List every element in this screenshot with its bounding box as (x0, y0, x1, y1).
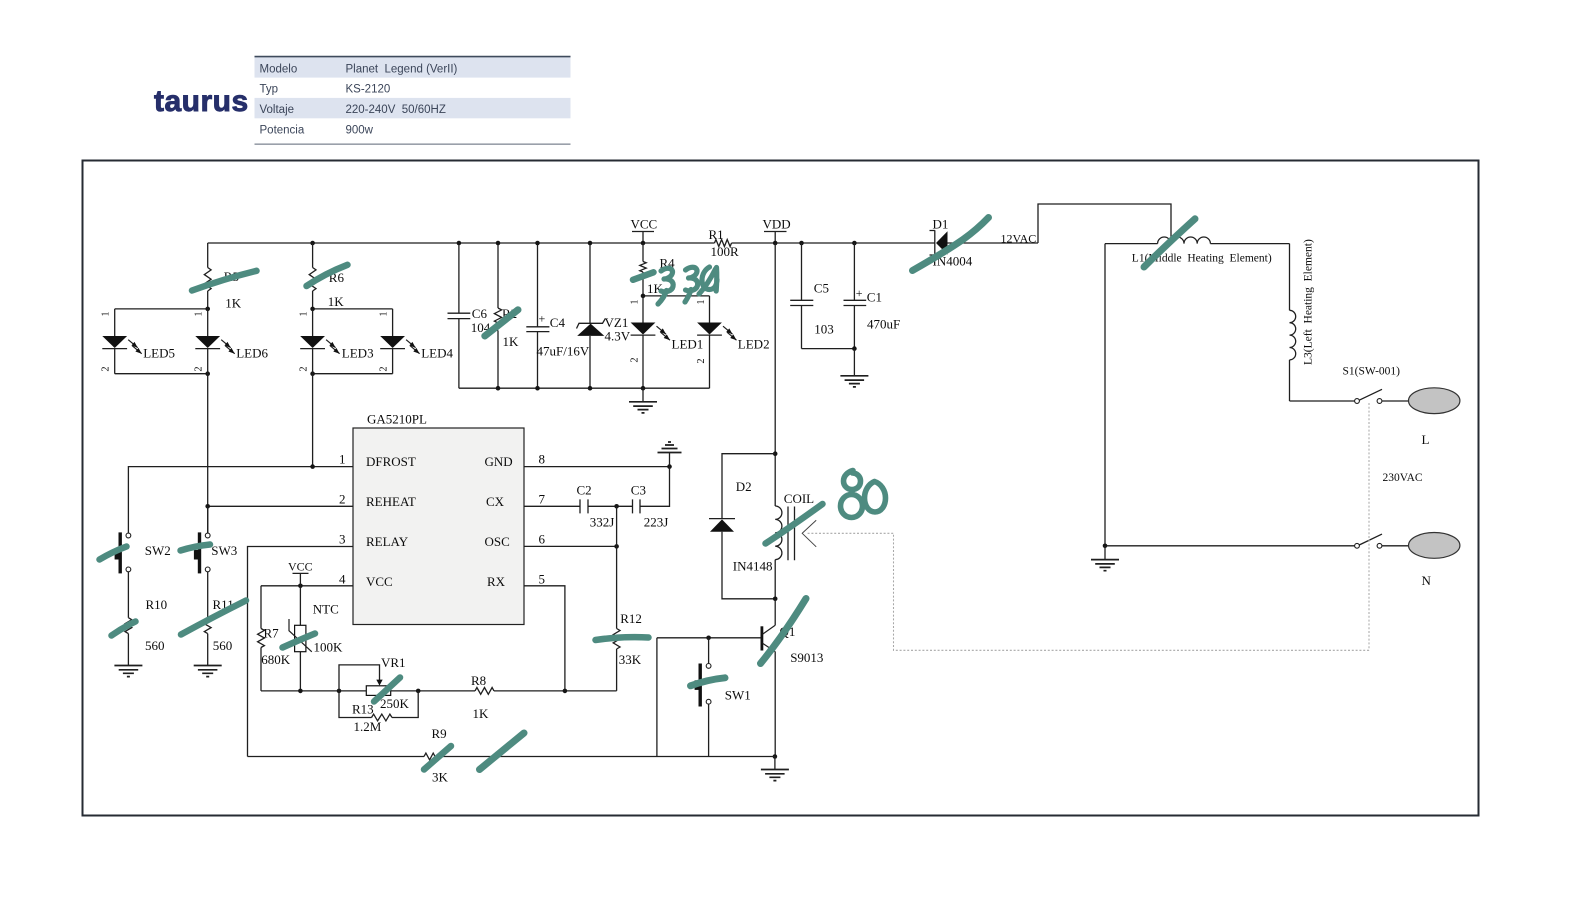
svg-text:LED2: LED2 (738, 337, 770, 352)
svg-text:100K: 100K (314, 639, 344, 654)
svg-text:LED1: LED1 (672, 337, 704, 352)
svg-text:Modelo: Modelo (260, 63, 298, 75)
resistor R4 1K (640, 243, 675, 296)
resistor R13 1.2M (339, 691, 418, 734)
svg-text:1: 1 (194, 312, 205, 317)
svg-text:VDD: VDD (763, 217, 791, 232)
wire: LED6 column down to SW3 (207, 374, 209, 534)
spec table (255, 57, 571, 145)
svg-text:2: 2 (339, 491, 346, 506)
terminal ellipse N (1409, 533, 1460, 559)
ground under Q1 emitter (773, 754, 778, 759)
ground under R10 (114, 666, 142, 677)
svg-text:1: 1 (298, 312, 309, 317)
svg-text:4: 4 (339, 571, 346, 586)
marker stroke over relay coil (766, 504, 823, 544)
svg-text:+: + (539, 312, 546, 326)
svg-text:900w: 900w (346, 124, 374, 136)
relay COIL (775, 491, 814, 599)
svg-text:C3: C3 (631, 482, 646, 497)
capacitor C6 (448, 243, 491, 388)
resistor R10 560 (125, 572, 167, 666)
LED5 (102, 309, 175, 374)
svg-text:KS-2120: KS-2120 (346, 84, 391, 96)
svg-text:560: 560 (213, 638, 233, 653)
diode D1 IN4004 (930, 216, 1039, 268)
wire: pin7 CX (524, 467, 670, 507)
marker stroke over R2 (485, 310, 518, 336)
svg-text:SW1: SW1 (725, 687, 751, 702)
svg-text:1.2M: 1.2M (354, 719, 382, 734)
resistor R2 1K (494, 243, 519, 388)
marker stroke over R10 (112, 622, 136, 636)
svg-text:2: 2 (696, 359, 707, 364)
svg-text:2: 2 (378, 367, 389, 372)
bottom rail of C6/R2/C4/VZ1/LED group (459, 387, 710, 389)
VDD power symbol (763, 217, 791, 244)
svg-text:C1: C1 (867, 290, 882, 305)
svg-text:6: 6 (539, 531, 546, 546)
wire: pin2 REHEAT to LED6 column (208, 505, 353, 507)
thermistor NTC 100K (289, 586, 343, 691)
svg-text:332J: 332J (590, 514, 615, 529)
svg-text:1K: 1K (473, 706, 490, 721)
marker stroke over Q1 (761, 599, 807, 664)
svg-text:1: 1 (378, 312, 389, 317)
wire: C5-C1 bottom (802, 348, 855, 350)
wire: pin8 GND net (524, 466, 670, 468)
svg-text:taurus: taurus (154, 85, 249, 118)
svg-text:47uF/16V: 47uF/16V (537, 344, 590, 359)
svg-text:5: 5 (539, 571, 546, 586)
svg-text:CX: CX (486, 494, 505, 509)
LED6 (195, 309, 268, 374)
marker stroke over R5 (192, 271, 257, 291)
wire: base node down to bottom rail (656, 638, 658, 757)
pushbutton SW2 (115, 532, 171, 573)
svg-text:4.3V: 4.3V (605, 329, 631, 344)
svg-text:N: N (1422, 573, 1432, 588)
svg-text:LED6: LED6 (236, 346, 268, 361)
resistor R12 33K (613, 506, 642, 691)
marker stroke over L1 (1144, 219, 1195, 267)
marker stroke over R6 (307, 265, 348, 286)
wire: pin4 VCC line (261, 585, 353, 587)
LED2 (697, 296, 769, 388)
wire: LED5/LED6 rails (115, 309, 208, 374)
svg-text:R7: R7 (264, 625, 280, 640)
inductor L3 (Left Heating Element) (1290, 239, 1315, 401)
ground under C1 (853, 349, 855, 376)
svg-text:Planet Legend (VerII): Planet Legend (VerII) (346, 63, 458, 75)
marker stroke over R9 (424, 746, 451, 770)
svg-text:1: 1 (339, 451, 346, 466)
marker stroke over R11 (181, 601, 246, 635)
transistor Q1 S9013 (762, 599, 824, 757)
wire: LED3/LED4 rails (313, 309, 393, 374)
resistor R11 560 (204, 572, 233, 666)
dashed mechanical linkage (806, 403, 1369, 650)
pushbutton SW1 (695, 638, 751, 757)
zener diode VZ1 (577, 243, 631, 388)
capacitor C1 470uF (844, 243, 901, 349)
svg-text:D1: D1 (933, 216, 949, 231)
schematic border frame (83, 161, 1479, 816)
svg-text:3K: 3K (432, 769, 449, 784)
svg-text:GND: GND (485, 454, 513, 469)
svg-text:VCC: VCC (288, 559, 313, 573)
svg-text:C2: C2 (577, 482, 592, 497)
wire: right loop vertical down to ground (1104, 244, 1106, 546)
svg-text:C4: C4 (550, 315, 566, 330)
switch S1 upper (L) (1290, 366, 1409, 404)
marker stroke over SW3 (181, 545, 211, 551)
svg-text:LED4: LED4 (421, 346, 453, 361)
marker handwriting 80 (841, 471, 863, 518)
svg-text:Typ: Typ (260, 84, 279, 96)
svg-text:VCC: VCC (366, 574, 393, 589)
svg-text:1K: 1K (225, 296, 242, 311)
svg-text:LED5: LED5 (143, 346, 175, 361)
marker stroke over SW1 (691, 678, 726, 686)
LED1 (631, 296, 704, 388)
svg-text:12VAC: 12VAC (1001, 232, 1037, 246)
svg-text:220-240V 50/60HZ: 220-240V 50/60HZ (346, 104, 446, 116)
svg-text:560: 560 (145, 638, 165, 653)
resistor R7 680K (258, 586, 291, 691)
wire: 12VAC loop to heating elements (1038, 204, 1171, 244)
svg-text:1: 1 (101, 312, 112, 317)
svg-text:L3(Left Heating Element): L3(Left Heating Element) (1303, 239, 1315, 365)
svg-text:D2: D2 (736, 479, 752, 494)
svg-text:R13: R13 (352, 701, 374, 716)
wire: bottom rail (248, 756, 775, 758)
svg-text:470uF: 470uF (867, 317, 900, 332)
svg-text:R9: R9 (432, 726, 447, 741)
svg-text:SW2: SW2 (145, 543, 171, 558)
svg-text:RELAY: RELAY (366, 534, 409, 549)
svg-text:1K: 1K (503, 334, 520, 349)
svg-text:VCC: VCC (631, 217, 658, 232)
svg-text:R12: R12 (620, 611, 642, 626)
ground at mains neutral (1104, 546, 1106, 560)
svg-text:SW3: SW3 (211, 543, 237, 558)
svg-text:1K: 1K (328, 294, 345, 309)
svg-text:R1: R1 (709, 227, 724, 242)
svg-text:103: 103 (814, 322, 834, 337)
svg-text:2: 2 (194, 367, 205, 372)
resistor R5 1K (204, 243, 241, 311)
wire: pin6 OSC (524, 545, 617, 547)
resistor R8 1K (471, 673, 494, 721)
capacitor C4 (526, 243, 590, 388)
svg-text:Potencia: Potencia (260, 124, 305, 136)
svg-text:250K: 250K (380, 696, 410, 711)
svg-text:GA5210PL: GA5210PL (367, 412, 427, 427)
svg-text:IN4148: IN4148 (733, 559, 773, 574)
potentiometer VR1 250K (339, 655, 410, 711)
marker stroke over SW2 (100, 547, 127, 560)
marker stroke over D1 (913, 218, 989, 271)
svg-text:VR1: VR1 (381, 655, 406, 670)
svg-text:OSC: OSC (485, 534, 510, 549)
svg-text:2: 2 (298, 367, 309, 372)
resistor R1 (709, 227, 740, 259)
wire: LED3 column down to pin1 line (312, 374, 314, 467)
marker stroke over R12 (596, 637, 649, 640)
wire: LED1/LED2 top rail (643, 295, 710, 297)
svg-text:R8: R8 (471, 673, 486, 688)
svg-text:680K: 680K (261, 652, 291, 667)
svg-text:DFROST: DFROST (366, 454, 416, 469)
svg-text:S9013: S9013 (790, 650, 823, 665)
svg-text:R10: R10 (146, 597, 168, 612)
svg-text:C5: C5 (814, 281, 829, 296)
wire: pin5 RX loop (524, 586, 565, 691)
wire: VDD vertical to relay coil (774, 243, 776, 506)
svg-text:33K: 33K (619, 652, 642, 667)
svg-text:L: L (1422, 432, 1430, 447)
marker stroke over VR1 (374, 678, 400, 702)
marker stroke over NTC (283, 634, 316, 648)
resistor R9 3K (424, 726, 449, 784)
ground under LED1/LED2 (641, 386, 646, 391)
svg-text:100R: 100R (711, 244, 740, 259)
marker handwriting 330 (658, 268, 673, 304)
terminal ellipse L (1409, 388, 1460, 414)
resistor R6 1K (309, 243, 344, 309)
svg-text:223J: 223J (644, 514, 669, 529)
linkage arrowhead at relay (802, 520, 816, 547)
capacitor C2 332J (577, 482, 615, 529)
wire: analog bottom line (261, 690, 617, 692)
LED3 (300, 309, 373, 374)
VCC power symbol (631, 217, 658, 244)
IC U1 GA5210PL (353, 412, 524, 625)
wire: main VCC bus (208, 242, 935, 244)
svg-text:NTC: NTC (313, 602, 339, 617)
svg-text:C6: C6 (472, 306, 488, 321)
LED4 (380, 309, 453, 374)
inductor L1 (Middle Heating Element) (1105, 237, 1290, 265)
svg-text:LED3: LED3 (342, 346, 374, 361)
capacitor C3 223J (631, 482, 669, 529)
pushbutton SW3 (207, 506, 209, 533)
marker dash near R4 (633, 272, 654, 280)
svg-text:8: 8 (539, 451, 546, 466)
wire: pin3 RELAY loop down (248, 547, 354, 757)
wire: base line (657, 637, 761, 639)
svg-text:COIL: COIL (784, 491, 814, 506)
VCC mini power symbol (288, 559, 313, 586)
inverted ground on GND net (669, 453, 671, 467)
wire: pin1 DFROST to SW2 (128, 467, 353, 533)
svg-text:+: + (856, 286, 863, 300)
svg-text:2: 2 (629, 358, 640, 363)
svg-text:1: 1 (696, 300, 707, 305)
svg-text:REHEAT: REHEAT (366, 494, 416, 509)
capacitor C5 103 (790, 243, 834, 349)
svg-text:230VAC: 230VAC (1383, 472, 1423, 484)
svg-text:Voltaje: Voltaje (260, 104, 295, 116)
svg-text:S1(SW-001): S1(SW-001) (1343, 366, 1401, 378)
diode D2 IN4148 (709, 454, 775, 599)
svg-text:2: 2 (101, 367, 112, 372)
svg-text:1: 1 (629, 300, 640, 305)
svg-text:RX: RX (487, 574, 506, 589)
bus junction dots (310, 241, 315, 246)
svg-text:7: 7 (539, 491, 546, 506)
svg-text:3: 3 (339, 531, 346, 546)
marker stroke near R9 (480, 733, 525, 770)
switch S1 lower (N) (1105, 534, 1408, 548)
ground under R11 (194, 666, 222, 677)
